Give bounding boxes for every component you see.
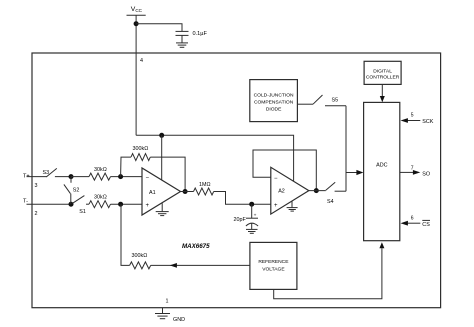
capacitor 0.1uF	[176, 31, 208, 43]
svg-text:30kΩ: 30kΩ	[94, 167, 107, 173]
wire reference voltage to 300k with arrow	[151, 263, 250, 268]
Vcc supply symbol	[127, 6, 146, 15]
node A1 output	[183, 189, 188, 194]
node A2 output	[314, 188, 319, 193]
svg-text:7: 7	[411, 165, 414, 171]
chip boundary box MAX6675	[32, 53, 441, 308]
wire A1 output to 1M	[181, 191, 194, 193]
svg-text:COLD-JUNCTION: COLD-JUNCTION	[254, 93, 294, 99]
label MAX6675	[182, 243, 210, 250]
resistor 30k lower	[89, 195, 111, 208]
switch S3	[43, 168, 72, 177]
wire Vcc branch to bypass cap	[136, 24, 182, 32]
svg-text:20pF: 20pF	[234, 217, 247, 223]
svg-text:REFERENCE: REFERENCE	[258, 259, 289, 265]
switch S1	[73, 196, 90, 215]
switch S4	[309, 182, 346, 205]
wire Vcc down to pin 4 and internal rail	[135, 15, 137, 135]
svg-text:1: 1	[166, 299, 169, 305]
pin 7 SO output arrow	[400, 165, 431, 177]
svg-text:S5: S5	[332, 98, 339, 104]
svg-text:CS: CS	[422, 222, 430, 228]
svg-text:DIODE: DIODE	[266, 107, 282, 113]
op-amp A1	[142, 168, 181, 215]
pin 4 label	[140, 58, 143, 64]
box cold-junction compensation diode	[250, 80, 298, 122]
svg-text:4: 4	[140, 58, 143, 64]
wire 30k to A1 minus input	[111, 176, 143, 178]
svg-text:GND: GND	[173, 317, 185, 323]
svg-text:5: 5	[411, 113, 414, 119]
node A1 plus input	[118, 202, 123, 207]
svg-text:6: 6	[411, 215, 414, 221]
svg-text:CONTROLLER: CONTROLLER	[366, 75, 400, 81]
switch S5	[297, 95, 346, 106]
svg-text:A1: A1	[149, 190, 156, 196]
node T+ junction	[69, 174, 74, 179]
svg-text:A2: A2	[278, 189, 285, 195]
wire 30k to A1 plus input	[111, 203, 143, 205]
svg-text:S2: S2	[73, 187, 80, 193]
op-amp A2	[271, 167, 309, 214]
svg-text:0.1µF: 0.1µF	[193, 31, 208, 37]
svg-text:VCC: VCC	[131, 6, 143, 13]
svg-text:30kΩ: 30kΩ	[94, 195, 107, 201]
pin 5 SCK input arrow	[401, 113, 434, 125]
svg-text:S3: S3	[43, 170, 50, 176]
svg-text:S1: S1	[79, 209, 86, 215]
ground below 0.1uF cap	[176, 43, 188, 47]
svg-text:VOLTAGE: VOLTAGE	[262, 266, 285, 272]
terminal T-	[23, 199, 71, 217]
capacitor 20pF	[234, 204, 259, 229]
node A1 minus input	[118, 174, 123, 179]
resistor 30k upper	[89, 167, 111, 180]
svg-text:COMPENSATION: COMPENSATION	[254, 100, 294, 106]
node rail junction	[159, 133, 164, 138]
Vcc internal rail to A1 and A2	[136, 135, 294, 181]
svg-text:300kΩ: 300kΩ	[132, 253, 148, 259]
box digital controller	[364, 61, 401, 84]
svg-text:+: +	[274, 203, 278, 209]
wire reference voltage to ADC bottom with arrow	[274, 242, 385, 299]
svg-text:DIGITAL: DIGITAL	[373, 68, 392, 74]
wire switch bus to ADC	[345, 106, 347, 191]
svg-text:300kΩ: 300kΩ	[133, 146, 149, 152]
wire T+ to 30k	[71, 176, 89, 178]
svg-text:ADC: ADC	[376, 162, 387, 168]
svg-text:+: +	[146, 203, 150, 209]
svg-text:MAX6675: MAX6675	[182, 243, 210, 250]
wire 300k up to A1 plus node	[121, 204, 130, 265]
node 20pF junction	[249, 202, 254, 207]
pin 1 GND	[155, 299, 185, 324]
wire rail drop to A1 top	[161, 135, 163, 180]
svg-text:S4: S4	[327, 199, 334, 205]
ground under A1	[156, 203, 169, 215]
svg-text:2: 2	[35, 211, 38, 217]
resistor 1M	[194, 182, 214, 195]
pin 6 CS input arrow	[401, 215, 431, 228]
node T- junction	[69, 202, 74, 207]
svg-text:3: 3	[35, 183, 38, 189]
wire digital controller to ADC with arrow	[380, 84, 385, 102]
wire feedback to A1 output	[150, 157, 185, 191]
wire A2 feedback loop	[253, 150, 316, 191]
svg-text:−: −	[274, 176, 278, 182]
box reference voltage	[250, 242, 297, 289]
svg-text:SCK: SCK	[422, 119, 433, 125]
node Vcc junction	[134, 21, 139, 26]
resistor 300k reference	[130, 253, 151, 269]
svg-text:+: +	[254, 214, 257, 219]
wire bus branch into ADC with arrow	[346, 170, 363, 175]
switch S2	[64, 177, 79, 205]
svg-text:−: −	[146, 175, 150, 181]
wire A1 feedback loop	[121, 157, 131, 177]
resistor 300k feedback	[131, 146, 150, 161]
box ADC	[364, 102, 400, 240]
svg-text:1MΩ: 1MΩ	[199, 182, 211, 188]
ground under A2	[287, 201, 298, 211]
ground below 20pF	[246, 229, 258, 233]
terminal T+	[23, 174, 47, 189]
svg-text:SO: SO	[422, 171, 430, 177]
wire 1M to A2 plus input	[214, 192, 271, 205]
